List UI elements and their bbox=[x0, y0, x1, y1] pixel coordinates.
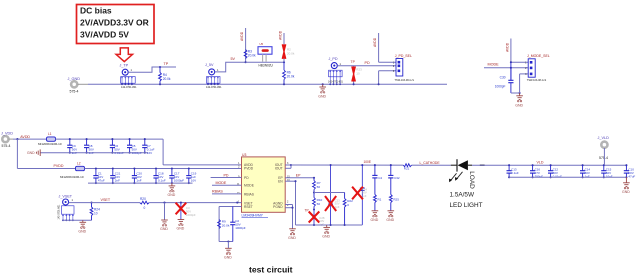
jack J_TP bbox=[120, 64, 138, 90]
capacitor C19 bbox=[186, 167, 196, 184]
capacitor C7 bbox=[142, 138, 154, 155]
resistor R7 bbox=[313, 178, 321, 194]
ground symbol on top bus bbox=[318, 83, 326, 98]
resistor R24 bbox=[90, 202, 100, 221]
deleted capacitor C28 red cross bbox=[309, 210, 325, 227]
svg-text:U3: U3 bbox=[242, 153, 246, 157]
svg-text:HB3N02U: HB3N02U bbox=[259, 63, 274, 67]
wire AVDD row1 bottom rail bbox=[40, 152, 148, 154]
net label PD at IC bbox=[224, 173, 229, 177]
svg-text:J_MODE_SEL: J_MODE_SEL bbox=[527, 54, 550, 58]
net label VSET bbox=[101, 198, 111, 202]
resistor R4 bbox=[159, 67, 171, 85]
red arrow pointing down bbox=[116, 48, 132, 62]
ground symbol below C30 bbox=[515, 93, 523, 107]
capacitor C1 bbox=[93, 167, 105, 184]
deleted resistor R23 red cross bbox=[352, 66, 362, 86]
svg-text:AVDD: AVDD bbox=[279, 30, 283, 40]
svg-text:C32: C32 bbox=[394, 176, 400, 180]
svg-text:GND: GND bbox=[386, 218, 394, 222]
ground symbol left of row1 rail bbox=[27, 149, 40, 156]
svg-text:50: 50 bbox=[317, 185, 321, 189]
capacitor C15 bbox=[601, 164, 613, 178]
resistor R1 bbox=[374, 195, 382, 211]
callout text DC bias bbox=[80, 6, 149, 40]
resistor R9 bbox=[218, 220, 230, 229]
net label 100E bbox=[364, 160, 371, 164]
svg-text:GND: GND bbox=[322, 234, 330, 238]
wire branch down to PVDD row bbox=[16, 139, 18, 168]
net label PVDD bbox=[54, 164, 64, 168]
svg-text:J_VDD: J_VDD bbox=[1, 131, 13, 135]
net label RBIAS at IC bbox=[212, 190, 223, 194]
svg-text:RSET: RSET bbox=[244, 205, 253, 209]
ground symbol on output rail bbox=[322, 225, 330, 238]
svg-text:PGND: PGND bbox=[273, 205, 283, 209]
svg-text:R25: R25 bbox=[393, 198, 399, 202]
svg-text:J_5V: J_5V bbox=[205, 63, 214, 67]
svg-text:TSW-103-08-G-S: TSW-103-08-G-S bbox=[527, 79, 547, 82]
wire AVDD rail bbox=[56, 138, 164, 140]
svg-text:AVDD: AVDD bbox=[373, 37, 377, 47]
capacitor C6 bbox=[110, 138, 124, 155]
component U5 HB3N02U bbox=[258, 42, 274, 67]
wire VLD bottom rail bbox=[509, 176, 626, 178]
svg-text:R20: R20 bbox=[140, 197, 146, 201]
svg-text:TP: TP bbox=[305, 209, 309, 213]
svg-text:20.0k: 20.0k bbox=[248, 54, 256, 58]
svg-text:L_CATHODE: L_CATHODE bbox=[420, 161, 441, 165]
net label TP 2 bbox=[351, 60, 356, 64]
wire J_TP to TP node bbox=[128, 66, 176, 72]
svg-text:0: 0 bbox=[347, 203, 349, 207]
svg-text:20.0k: 20.0k bbox=[163, 77, 171, 81]
wire MODE stub bbox=[212, 184, 242, 186]
svg-text:142-0701-801: 142-0701-801 bbox=[57, 204, 60, 220]
svg-text:575-4: 575-4 bbox=[599, 156, 608, 160]
svg-text:TP: TP bbox=[351, 60, 356, 64]
svg-text:TP: TP bbox=[164, 62, 169, 66]
svg-text:MODE: MODE bbox=[488, 62, 500, 66]
svg-text:R1: R1 bbox=[378, 198, 382, 202]
svg-text:20.0k: 20.0k bbox=[287, 52, 295, 56]
jack J_5V bbox=[205, 63, 222, 89]
svg-text:0.1uF: 0.1uF bbox=[158, 178, 166, 182]
ground symbol below RSET loop bbox=[224, 248, 232, 259]
svg-text:R21: R21 bbox=[404, 167, 410, 171]
wire PD net bbox=[337, 65, 396, 67]
deleted capacitor C23 red cross bbox=[325, 165, 340, 225]
inductor L1 bbox=[38, 132, 62, 146]
svg-text:GND: GND bbox=[78, 229, 86, 233]
resistor R3 bbox=[244, 50, 256, 64]
svg-text:1000pF: 1000pF bbox=[174, 178, 184, 182]
ground symbol below J_VSET bbox=[78, 220, 86, 233]
svg-text:1pF: 1pF bbox=[335, 205, 340, 209]
power net AVDD vertical 3 bbox=[373, 33, 378, 62]
svg-text:20.0k: 20.0k bbox=[222, 224, 230, 228]
connector J_VDD bbox=[1, 131, 13, 148]
wire AVDD rail to IC bbox=[163, 139, 241, 165]
wire PD stub bbox=[211, 177, 242, 179]
svg-text:GND: GND bbox=[515, 103, 523, 107]
wire AGND PGND stubs bbox=[285, 205, 293, 229]
ground symbol below C3 bbox=[177, 220, 185, 231]
wire RBIAS stub bbox=[212, 193, 242, 195]
capacitor C18 bbox=[153, 167, 165, 184]
ground symbol below IC bbox=[288, 229, 296, 240]
IC U3 part number label bbox=[242, 214, 269, 218]
capacitor C10 bbox=[624, 164, 636, 178]
svg-text:1pF: 1pF bbox=[319, 222, 324, 226]
svg-text:MI1206K310R-10: MI1206K310R-10 bbox=[38, 142, 62, 146]
wire PVDD row bottom rail bbox=[88, 182, 193, 184]
wire node to R22 bbox=[314, 192, 345, 194]
svg-text:J_PD: J_PD bbox=[329, 57, 338, 61]
wire EP stub bbox=[285, 177, 315, 179]
svg-text:47uF: 47uF bbox=[98, 178, 105, 182]
svg-text:J_VLD: J_VLD bbox=[598, 136, 610, 140]
resistor R6 bbox=[283, 62, 295, 85]
capacitor C21 bbox=[110, 167, 120, 184]
resistor R22 bbox=[343, 193, 353, 226]
LED diode D1 bbox=[451, 159, 472, 171]
svg-text:100E: 100E bbox=[364, 160, 371, 164]
svg-text:1000pF: 1000pF bbox=[235, 226, 246, 230]
wire J_MODE_SEL pin3 to gnd bbox=[520, 74, 529, 93]
svg-text:EN: EN bbox=[278, 180, 283, 184]
svg-text:10: 10 bbox=[356, 72, 360, 76]
svg-text:575-4: 575-4 bbox=[2, 144, 11, 148]
annotation callout box: DC bias bbox=[77, 5, 155, 44]
ground drop on VSET wire bbox=[160, 203, 168, 231]
wire PVDD row start bbox=[17, 168, 75, 170]
svg-text:PD: PD bbox=[224, 173, 229, 177]
capacitor C17 bbox=[169, 167, 184, 184]
svg-text:LED LIGHT: LED LIGHT bbox=[450, 202, 483, 209]
net label TP 3 bbox=[305, 209, 309, 213]
ground symbol below row2 bbox=[168, 183, 176, 197]
resistor R20 bbox=[140, 197, 150, 210]
net label AVDD on wire bbox=[20, 135, 30, 139]
wire IOUT net bbox=[291, 164, 451, 166]
svg-text:AVDD: AVDD bbox=[506, 42, 510, 52]
net label VLD bbox=[537, 161, 544, 165]
net label PD bbox=[365, 61, 370, 65]
op-amp U3 LM3409 IC body bbox=[242, 153, 286, 212]
svg-text:142-0701-801: 142-0701-801 bbox=[121, 86, 137, 89]
wire IOUT stubs bbox=[285, 164, 292, 168]
svg-text:20.0k: 20.0k bbox=[287, 75, 295, 79]
ground symbol below R25 bbox=[386, 211, 394, 222]
svg-text:2V/AVDD3.3V OR: 2V/AVDD3.3V OR bbox=[80, 18, 149, 28]
svg-text:VSET: VSET bbox=[101, 198, 111, 202]
svg-text:IOUT: IOUT bbox=[275, 167, 283, 171]
svg-text:PD: PD bbox=[365, 61, 370, 65]
power net AVDD vertical 4 bbox=[506, 39, 529, 80]
svg-text:AVDD: AVDD bbox=[20, 135, 30, 139]
wire VSET to IC bbox=[149, 202, 241, 204]
svg-text:PVDD: PVDD bbox=[244, 167, 254, 171]
svg-text:DC bias: DC bias bbox=[80, 6, 112, 16]
svg-text:10: 10 bbox=[94, 212, 98, 216]
wire J_5V to 5V node bbox=[215, 62, 245, 72]
wire AVDD to J_PD_SEL pin1 bbox=[379, 61, 396, 63]
IC U3 pin numbers bbox=[237, 162, 291, 207]
svg-text:1000pF: 1000pF bbox=[186, 213, 196, 217]
svg-text:575-4: 575-4 bbox=[70, 90, 79, 94]
resistor R10 bbox=[313, 193, 323, 211]
svg-text:C30: C30 bbox=[500, 76, 506, 80]
svg-text:J_GND: J_GND bbox=[68, 77, 81, 81]
wire LED to VLD rail bbox=[472, 164, 626, 166]
connector J_GND bbox=[68, 77, 89, 94]
deleted capacitor C24 red cross bbox=[352, 165, 367, 225]
power net AVDD vertical 1 bbox=[240, 28, 245, 62]
deleted capacitor C3 red cross bbox=[176, 203, 196, 220]
capacitor C2 bbox=[230, 207, 246, 242]
capacitor C5 bbox=[127, 138, 142, 155]
power net AVDD vertical 2 bbox=[279, 30, 284, 44]
wire VSET net bbox=[69, 202, 140, 204]
svg-text:GND: GND bbox=[288, 236, 296, 240]
LED light arrows bbox=[449, 172, 463, 183]
resistor R21 bbox=[403, 164, 411, 171]
svg-text:0.1uF: 0.1uF bbox=[511, 171, 519, 175]
net label L_CATHODE bbox=[420, 161, 441, 165]
svg-text:LM3409HVMY: LM3409HVMY bbox=[242, 214, 264, 218]
label 1.5A/5W LED LIGHT bbox=[450, 191, 483, 209]
wire top ground bus bbox=[88, 83, 447, 85]
svg-text:MODE: MODE bbox=[216, 181, 227, 185]
net label MODE bbox=[488, 62, 500, 66]
svg-text:RBIAS: RBIAS bbox=[212, 190, 223, 194]
svg-text:test circuit: test circuit bbox=[249, 265, 293, 275]
svg-text:142-0701-801: 142-0701-801 bbox=[206, 86, 222, 89]
wire PVDD rail bbox=[85, 168, 242, 170]
svg-text:1pF: 1pF bbox=[362, 194, 367, 198]
wire J_VSET bottom rail bbox=[63, 219, 92, 221]
capacitor C16 bbox=[530, 164, 543, 178]
svg-text:47uF: 47uF bbox=[628, 174, 635, 178]
svg-text:MODE: MODE bbox=[244, 184, 255, 188]
resistor R25 bbox=[389, 195, 399, 211]
label LOAD bbox=[468, 171, 475, 189]
deleted resistor R2 red cross bbox=[282, 44, 295, 62]
svg-text:J_PD_SEL: J_PD_SEL bbox=[395, 54, 412, 58]
svg-text:GND: GND bbox=[27, 151, 35, 155]
svg-text:GND: GND bbox=[224, 255, 232, 259]
svg-text:C4: C4 bbox=[378, 176, 382, 180]
svg-text:50: 50 bbox=[317, 202, 321, 206]
svg-text:RBIAS: RBIAS bbox=[244, 193, 255, 197]
svg-text:L2: L2 bbox=[77, 162, 81, 166]
connector J_PD_SEL bbox=[393, 54, 414, 82]
svg-text:GND: GND bbox=[622, 190, 630, 194]
svg-text:AVDD: AVDD bbox=[240, 31, 244, 41]
net label TP bbox=[164, 62, 169, 66]
svg-text:10V: 10V bbox=[191, 178, 196, 182]
capacitor C12 bbox=[548, 164, 562, 178]
net label MODE at IC bbox=[216, 181, 227, 185]
svg-text:5V: 5V bbox=[231, 57, 236, 61]
svg-text:L1: L1 bbox=[48, 132, 52, 136]
jack J_VSET bbox=[57, 194, 74, 221]
wire J_VDD to L1 bbox=[13, 138, 47, 140]
svg-text:GND: GND bbox=[168, 193, 176, 197]
svg-text:MI1206K310R-10: MI1206K310R-10 bbox=[60, 175, 84, 179]
inductor L2 bbox=[60, 162, 85, 179]
svg-text:1000pF: 1000pF bbox=[495, 85, 506, 89]
wire RSET loop bbox=[219, 207, 241, 249]
ground symbol below R1 bbox=[371, 211, 379, 222]
wire J_VLD down bbox=[603, 148, 605, 165]
wire LED cathode black dash bbox=[480, 164, 485, 166]
caption test circuit bbox=[249, 265, 293, 275]
capacitor C4 bbox=[372, 165, 382, 194]
connector J_MODE_SEL bbox=[525, 54, 550, 82]
svg-text:J_VSET: J_VSET bbox=[59, 194, 73, 198]
capacitor C14 bbox=[580, 164, 590, 178]
svg-text:GND: GND bbox=[160, 227, 168, 231]
capacitor C30 bbox=[495, 68, 521, 94]
wire 5V node to R2 node bbox=[246, 61, 285, 63]
wire bottom rail of output network bbox=[296, 224, 363, 226]
capacitor C9 bbox=[67, 138, 77, 155]
svg-text:0: 0 bbox=[144, 206, 146, 210]
capacitor C32 bbox=[388, 165, 400, 194]
wire J_PD_SEL pin3 to bus bbox=[378, 71, 396, 86]
svg-text:VLD: VLD bbox=[537, 161, 544, 165]
net label 5V bbox=[231, 57, 236, 61]
IC U3 pin names bbox=[244, 163, 283, 209]
net label EP bbox=[296, 173, 301, 177]
svg-text:2nF: 2nF bbox=[115, 178, 120, 182]
svg-text:3V/AVDD 5V: 3V/AVDD 5V bbox=[80, 30, 129, 40]
svg-text:GND: GND bbox=[177, 227, 185, 231]
capacitor C20 bbox=[132, 167, 142, 184]
svg-text:1.5A/5W: 1.5A/5W bbox=[450, 191, 475, 198]
svg-text:GND: GND bbox=[318, 95, 326, 99]
ground symbol right end bbox=[622, 177, 630, 194]
capacitor C13 bbox=[507, 164, 519, 178]
svg-text:U5: U5 bbox=[260, 42, 264, 46]
svg-text:1nF: 1nF bbox=[136, 178, 141, 182]
svg-text:J_TP: J_TP bbox=[120, 64, 129, 68]
svg-text:GND: GND bbox=[371, 218, 379, 222]
wire MODE net bbox=[484, 67, 528, 69]
wire EN stub and drop bbox=[285, 180, 296, 225]
svg-text:EP: EP bbox=[296, 173, 301, 177]
svg-text:TSW-103-08-G-S: TSW-103-08-G-S bbox=[395, 79, 415, 82]
svg-text:PVDD: PVDD bbox=[54, 164, 64, 168]
jack J_PD bbox=[328, 57, 344, 85]
svg-text:LOAD: LOAD bbox=[468, 171, 475, 189]
capacitor C8 bbox=[84, 138, 94, 155]
connector J_VLD bbox=[598, 136, 610, 160]
svg-text:142-0701-801: 142-0701-801 bbox=[328, 80, 344, 83]
svg-text:PD: PD bbox=[244, 176, 249, 180]
